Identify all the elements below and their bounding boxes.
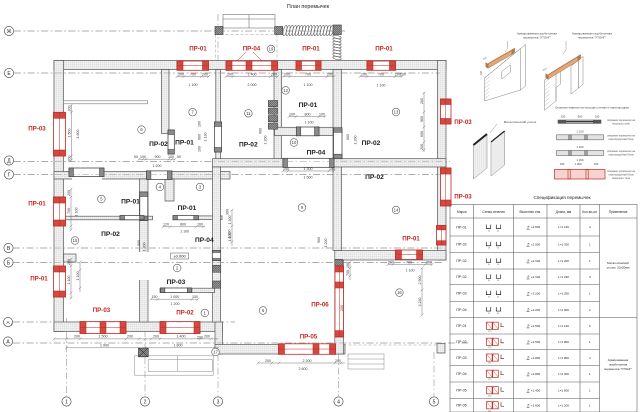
svg-text:16: 16 xyxy=(397,290,402,295)
wall interior x212 xyxy=(213,167,221,322)
porch bottom outline xyxy=(135,356,214,375)
svg-text:+2.500: +2.500 xyxy=(531,324,541,328)
lintel PR-03 right R9 xyxy=(441,168,452,206)
svg-text:2 000: 2 000 xyxy=(248,83,257,87)
svg-text:1 900: 1 900 xyxy=(100,344,109,348)
svg-text:перемычка "УТОНГ": перемычка "УТОНГ" xyxy=(604,367,632,371)
svg-text:ПР-01: ПР-01 xyxy=(28,201,46,208)
lintel B6 PR-02 wall G xyxy=(146,171,172,180)
dim room16 top xyxy=(387,263,434,266)
svg-text:14: 14 xyxy=(394,208,399,213)
svg-text:700: 700 xyxy=(346,270,350,276)
lintel B4 wall y217 left xyxy=(120,216,144,220)
detail metal angle xyxy=(473,131,504,179)
svg-text:200: 200 xyxy=(202,72,208,76)
svg-text:ПР-06: ПР-06 xyxy=(456,404,466,408)
section bar 2 xyxy=(557,135,604,140)
lintel PR-01 rightsec R14 xyxy=(396,250,423,260)
dim top L3 xyxy=(282,75,336,78)
svg-text:Длина, мм: Длина, мм xyxy=(556,210,572,214)
svg-text:900: 900 xyxy=(259,128,263,134)
svg-text:100: 100 xyxy=(289,112,295,116)
svg-text:200: 200 xyxy=(67,190,71,196)
dim wing left xyxy=(349,261,352,280)
svg-text:перемычка "УТОНГ": перемычка "УТОНГ" xyxy=(523,36,551,40)
axis line G xyxy=(14,174,450,176)
svg-text:11: 11 xyxy=(246,111,251,116)
svg-text:Металлический уголок: Металлический уголок xyxy=(504,120,537,124)
wall right-section bottom xyxy=(335,251,446,261)
svg-text:ПР-03: ПР-03 xyxy=(93,307,111,314)
section bar 1 xyxy=(558,120,601,123)
svg-text:900: 900 xyxy=(420,116,424,122)
wall interior x140 xyxy=(140,179,149,322)
svg-text:150: 150 xyxy=(192,295,198,299)
svg-text:ПР-04: ПР-04 xyxy=(195,237,214,244)
svg-text:1 100: 1 100 xyxy=(305,121,314,125)
axis lines overlay xyxy=(14,30,345,32)
svg-text:700: 700 xyxy=(406,260,412,264)
node room 4 xyxy=(156,183,164,191)
wall exterior bottom-left xyxy=(54,322,223,332)
wall interior y286 xyxy=(160,288,215,292)
lintel PR-03 bottom R11 xyxy=(80,322,126,334)
svg-text:+2.100: +2.100 xyxy=(531,275,541,279)
axis line V xyxy=(13,247,442,249)
axis line 5 vertical xyxy=(433,352,435,396)
steps wing bottom-right xyxy=(348,354,384,369)
svg-text:160: 160 xyxy=(197,223,203,227)
svg-text:1: 1 xyxy=(65,399,68,405)
svg-text:+2.500: +2.500 xyxy=(531,340,541,344)
svg-text:ПР-02: ПР-02 xyxy=(239,142,258,149)
svg-text:ПР-02: ПР-02 xyxy=(456,275,466,279)
svg-text:200: 200 xyxy=(284,72,290,76)
node room 7 xyxy=(189,108,197,116)
svg-text:+2.100: +2.100 xyxy=(531,259,541,263)
axis line 1 vertical xyxy=(66,318,68,396)
svg-text:200: 200 xyxy=(178,72,184,76)
svg-text:1 200: 1 200 xyxy=(264,136,268,145)
svg-text:ПР-04: ПР-04 xyxy=(307,150,326,157)
svg-text:800: 800 xyxy=(180,223,186,227)
node room 16 xyxy=(396,289,404,297)
detail2 lintel beam xyxy=(546,55,581,80)
svg-text:1 100: 1 100 xyxy=(76,272,80,281)
dim top L1 xyxy=(176,75,210,78)
svg-text:900: 900 xyxy=(198,134,202,140)
porch post 3 xyxy=(333,25,341,35)
dim D opening xyxy=(282,170,336,173)
svg-text:1 100: 1 100 xyxy=(75,208,79,217)
svg-text:+2.800: +2.800 xyxy=(531,356,541,360)
svg-text:1 300: 1 300 xyxy=(304,167,313,171)
wall interior x274 xyxy=(274,70,282,161)
svg-text:ПР-03: ПР-03 xyxy=(454,194,472,201)
node room 6 xyxy=(138,126,146,134)
leader PR-04 xyxy=(237,52,262,61)
svg-text:1 800: 1 800 xyxy=(76,130,80,139)
svg-text:L=1 200: L=1 200 xyxy=(558,259,569,263)
svg-text:ПР-01: ПР-01 xyxy=(299,102,318,109)
dim room3 door xyxy=(162,225,205,228)
svg-text:1 100: 1 100 xyxy=(577,145,584,149)
svg-text:200: 200 xyxy=(327,72,333,76)
svg-text:L=1 330: L=1 330 xyxy=(558,242,569,246)
axis B xyxy=(4,258,13,267)
svg-text:700: 700 xyxy=(378,72,384,76)
svg-text:ПР-02: ПР-02 xyxy=(176,310,194,317)
svg-text:ПР-01: ПР-01 xyxy=(121,199,140,206)
svg-text:100: 100 xyxy=(140,155,146,159)
dim room14 right xyxy=(421,267,424,317)
wall stub x165 xyxy=(165,179,174,201)
svg-text:ПР-02: ПР-02 xyxy=(149,141,168,148)
dim bottom left1 xyxy=(53,338,147,341)
svg-text:Г: Г xyxy=(8,172,11,178)
svg-text:L=1 600: L=1 600 xyxy=(558,308,569,312)
node room 11 xyxy=(245,110,253,118)
axis 2 xyxy=(140,397,149,406)
dim bottom left2 xyxy=(145,338,218,341)
svg-text:ПР-04: ПР-04 xyxy=(456,372,466,376)
svg-text:L=1 250: L=1 250 xyxy=(558,291,569,295)
dim room13 right xyxy=(423,92,426,152)
svg-text:12: 12 xyxy=(283,88,288,93)
svg-text:50: 50 xyxy=(134,155,138,159)
axis 4 xyxy=(334,397,343,406)
svg-text:уголок, 20х20мм: уголок, 20х20мм xyxy=(607,266,630,270)
svg-text:ПР-04: ПР-04 xyxy=(243,46,261,53)
axis V xyxy=(4,243,13,252)
svg-text:2: 2 xyxy=(144,399,147,405)
svg-text:+2.500: +2.500 xyxy=(531,242,541,246)
svg-text:5: 5 xyxy=(433,399,436,405)
svg-text:200: 200 xyxy=(197,336,203,340)
svg-text:ПР-01: ПР-01 xyxy=(189,46,207,53)
svg-text:ПР-04: ПР-04 xyxy=(456,308,466,312)
svg-text:1 100: 1 100 xyxy=(577,130,584,134)
axis line 3 vertical top xyxy=(217,14,219,62)
svg-text:17: 17 xyxy=(213,350,218,355)
node room 1 xyxy=(201,309,209,317)
axis line A xyxy=(13,342,468,344)
svg-text:+2.200: +2.200 xyxy=(531,308,541,312)
axis G xyxy=(4,170,13,179)
svg-text:Схема сечения: Схема сечения xyxy=(482,210,505,214)
svg-text:несущую стену: несущую стену xyxy=(612,122,630,125)
svg-text:+2.500: +2.500 xyxy=(531,225,541,229)
svg-text:ПР-03: ПР-03 xyxy=(454,119,472,126)
axis line B xyxy=(13,262,442,264)
dim left R6 xyxy=(70,188,73,232)
lintel PR-06 wing R15 xyxy=(335,266,344,337)
svg-text:1 600: 1 600 xyxy=(304,176,313,180)
svg-text:150: 150 xyxy=(595,115,600,119)
svg-text:ПР-03: ПР-03 xyxy=(456,291,466,295)
porch post 2 xyxy=(275,27,283,35)
svg-text:13: 13 xyxy=(394,110,399,115)
svg-text:200: 200 xyxy=(204,335,210,339)
lintel PR-01 top R4 xyxy=(367,61,396,70)
dim wing bottom xyxy=(257,362,345,365)
svg-text:900: 900 xyxy=(317,237,321,243)
svg-text:1 100: 1 100 xyxy=(406,269,415,273)
node room 5 xyxy=(98,195,106,203)
svg-text:1 100: 1 100 xyxy=(304,83,313,87)
lintel B16 thin wall x218 door xyxy=(215,122,222,152)
svg-text:100: 100 xyxy=(198,121,202,127)
svg-text:150: 150 xyxy=(329,167,335,171)
wall wing left xyxy=(335,260,344,354)
node room 6b xyxy=(259,307,267,315)
svg-text:анкерного типа: анкерного типа xyxy=(612,177,630,180)
svg-text:600: 600 xyxy=(420,131,424,137)
svg-text:ПР-05: ПР-05 xyxy=(300,334,318,341)
svg-text:200: 200 xyxy=(153,335,159,339)
svg-text:150: 150 xyxy=(560,162,565,166)
svg-text:ПР-02: ПР-02 xyxy=(456,259,466,263)
svg-text:Ж: Ж xyxy=(7,29,12,35)
svg-text:3 230: 3 230 xyxy=(418,298,422,307)
svg-text:+2.800: +2.800 xyxy=(531,372,541,376)
svg-text:900: 900 xyxy=(578,115,583,119)
partition thin room6 xyxy=(64,101,148,104)
wall exterior right xyxy=(438,61,447,261)
wall step vertical xyxy=(215,322,223,354)
svg-text:1 800: 1 800 xyxy=(174,344,183,348)
lintel B10 wall x212 door xyxy=(212,251,220,261)
porch post 1 xyxy=(215,27,223,35)
lintel B13 wall D opening xyxy=(283,158,334,167)
lintel PR-01 left R7 xyxy=(54,266,66,297)
svg-text:700: 700 xyxy=(67,208,71,214)
axis line Zh xyxy=(14,30,345,32)
svg-text:ПР-01: ПР-01 xyxy=(30,276,48,283)
svg-text:ПР-01: ПР-01 xyxy=(456,225,466,229)
svg-text:150: 150 xyxy=(561,115,566,119)
svg-text:200: 200 xyxy=(361,72,367,76)
svg-text:1 100: 1 100 xyxy=(189,83,198,87)
svg-text:15: 15 xyxy=(73,238,78,243)
svg-text:ПР-05: ПР-05 xyxy=(456,389,466,393)
svg-text:200: 200 xyxy=(67,259,71,265)
axis line 2 vertical xyxy=(144,330,146,396)
svg-text:3: 3 xyxy=(217,399,220,405)
dim left R5 xyxy=(70,104,73,162)
svg-text:700: 700 xyxy=(190,72,196,76)
svg-text:600: 600 xyxy=(346,134,350,140)
svg-text:L=1 130: L=1 130 xyxy=(558,225,569,229)
svg-text:300: 300 xyxy=(226,209,230,215)
svg-text:1 000: 1 000 xyxy=(170,295,179,299)
svg-text:L=1 230: L=1 230 xyxy=(558,275,569,279)
svg-text:1 500: 1 500 xyxy=(99,335,108,339)
svg-text:1 500: 1 500 xyxy=(68,129,72,138)
svg-text:ПР-02: ПР-02 xyxy=(456,243,466,247)
svg-text:План перемычек: План перемычек xyxy=(287,4,330,10)
svg-text:перегородочный блок: перегородочный блок xyxy=(608,138,634,141)
svg-text:900: 900 xyxy=(155,155,161,159)
svg-text:1 400: 1 400 xyxy=(177,335,186,339)
svg-text:50: 50 xyxy=(177,155,181,159)
svg-text:ПР-01: ПР-01 xyxy=(456,324,466,328)
lintel B8 block top of PR-06 xyxy=(335,259,343,265)
wall interior x333 xyxy=(333,70,342,251)
svg-text:ПР-02: ПР-02 xyxy=(362,140,381,147)
lintel PR-02 bottom R12 xyxy=(160,322,200,334)
wall stub left B xyxy=(64,254,77,262)
svg-text:2 900: 2 900 xyxy=(418,276,422,285)
node room 3 xyxy=(196,183,204,191)
node room 9 xyxy=(298,204,306,212)
svg-text:2 200: 2 200 xyxy=(303,359,312,363)
svg-text:ПР-01: ПР-01 xyxy=(375,46,393,53)
svg-text:ПР-06: ПР-06 xyxy=(311,302,329,309)
svg-text:1 300: 1 300 xyxy=(228,230,232,239)
svg-text:1 200: 1 200 xyxy=(153,164,162,168)
wall interior y217 xyxy=(54,216,153,220)
svg-text:ПР-02: ПР-02 xyxy=(101,231,120,238)
wall exterior bottom-middle xyxy=(215,345,345,355)
svg-text:200: 200 xyxy=(420,144,424,150)
svg-text:200: 200 xyxy=(74,335,80,339)
svg-text:200: 200 xyxy=(227,72,233,76)
dim left R7 xyxy=(70,258,73,300)
svg-text:19: 19 xyxy=(269,47,274,52)
detail1 label xyxy=(505,41,508,52)
section bar 4 red xyxy=(555,170,606,180)
porch dashed sides xyxy=(216,35,278,61)
lintel B1 door room6-7 xyxy=(168,130,174,154)
svg-text:L=1 800: L=1 800 xyxy=(558,356,569,360)
svg-text:200: 200 xyxy=(68,156,72,162)
svg-text:Кол-во,шт: Кол-во,шт xyxy=(582,210,597,214)
svg-text:1 200: 1 200 xyxy=(354,136,358,145)
svg-text:ПР-03: ПР-03 xyxy=(456,356,466,360)
svg-text:200: 200 xyxy=(426,260,432,264)
wall interior y217 right xyxy=(198,216,222,220)
lintel right R10 xyxy=(437,226,447,246)
svg-text:200: 200 xyxy=(420,98,424,104)
axis 1 xyxy=(62,397,71,406)
door gap wall x140 xyxy=(139,252,149,280)
level mark 0.000 xyxy=(171,253,189,259)
axis line 3 vertical bottom xyxy=(217,354,219,396)
svg-text:1 300: 1 300 xyxy=(228,216,232,225)
axis line A1 xyxy=(13,321,235,323)
axis line D xyxy=(14,161,450,163)
svg-text:Применение: Применение xyxy=(609,210,628,214)
svg-text:ПР-01: ПР-01 xyxy=(302,46,320,53)
svg-text:L=2 000: L=2 000 xyxy=(558,372,569,376)
node room 17 xyxy=(212,348,220,356)
lintel B15 wall y286 opening xyxy=(160,288,191,293)
svg-text:1 400: 1 400 xyxy=(248,72,257,76)
lintel PR-04 top R2 xyxy=(226,61,278,70)
wall exterior left xyxy=(54,61,64,332)
node room 12 xyxy=(282,87,290,95)
svg-text:1 100: 1 100 xyxy=(180,229,189,233)
wall interior thin x218 xyxy=(216,70,221,160)
svg-text:200: 200 xyxy=(400,73,406,77)
svg-text:200: 200 xyxy=(127,335,133,339)
svg-text:+1.600: +1.600 xyxy=(531,403,541,407)
svg-text:ПР-02: ПР-02 xyxy=(365,174,384,181)
svg-text:120: 120 xyxy=(163,223,169,227)
detail iso 2 piers with lintel xyxy=(545,56,584,110)
svg-text:+2.100: +2.100 xyxy=(531,291,541,295)
svg-text:ПР-03: ПР-03 xyxy=(167,279,186,286)
wall wing corner block xyxy=(437,344,445,354)
door gap wall G xyxy=(72,171,102,180)
svg-text:100: 100 xyxy=(198,146,202,152)
svg-text:Армированная: Армированная xyxy=(608,358,629,362)
svg-text:10: 10 xyxy=(292,140,297,145)
section bar 3 xyxy=(557,151,604,156)
column block porch xyxy=(139,348,149,357)
svg-text:Металлический: Металлический xyxy=(607,261,629,265)
axis Zh xyxy=(4,26,13,35)
node room 2 xyxy=(173,264,181,272)
lintel PR-01 top R3 xyxy=(296,61,321,70)
axis A xyxy=(3,337,12,346)
svg-text:150: 150 xyxy=(594,162,599,166)
node room 15 xyxy=(71,237,79,245)
svg-text:ПР-01: ПР-01 xyxy=(178,205,197,212)
svg-text:1 000: 1 000 xyxy=(575,162,582,166)
dim room9 left xyxy=(231,209,234,246)
lintel PR-03 right R8 xyxy=(441,99,452,124)
svg-text:±0.000: ±0.000 xyxy=(173,254,186,259)
dim room15 v xyxy=(79,261,82,292)
lintel PR-01 left R6 xyxy=(54,197,66,226)
lintel PR-05 bottom R13 xyxy=(279,344,336,355)
axis A1 xyxy=(3,317,12,326)
lintel B2 PR-01 wall y126 xyxy=(296,127,319,136)
lintel B7 wall x333 xyxy=(334,128,343,159)
svg-text:200: 200 xyxy=(388,260,394,264)
svg-text:2 600: 2 600 xyxy=(299,367,308,371)
svg-text:1 200: 1 200 xyxy=(324,239,328,248)
svg-text:Марка: Марка xyxy=(457,210,467,214)
axis 5 xyxy=(429,397,438,406)
axis 3 xyxy=(213,397,222,406)
dim room6 door xyxy=(138,158,177,161)
svg-text:150: 150 xyxy=(152,295,158,299)
wing bottom dashed edge xyxy=(344,344,438,346)
junction blocks wall x212 xyxy=(213,265,221,272)
svg-text:200: 200 xyxy=(265,359,271,363)
svg-text:200: 200 xyxy=(68,106,72,112)
svg-text:300: 300 xyxy=(480,70,483,75)
detail2 label xyxy=(563,41,566,54)
svg-text:1 200: 1 200 xyxy=(143,243,147,252)
stair coil vertical xyxy=(332,35,341,61)
dim PR01 x307 xyxy=(288,115,327,118)
svg-text:Спецификация перемычек: Спецификация перемычек xyxy=(533,195,591,200)
lintel PR-01 top R1 xyxy=(177,61,209,70)
svg-text:ПР-02: ПР-02 xyxy=(456,340,466,344)
detail1 lintel beam xyxy=(486,48,515,68)
svg-text:200: 200 xyxy=(340,305,344,311)
svg-text:ПР-03: ПР-03 xyxy=(28,126,46,133)
porch outline top xyxy=(223,15,275,29)
wall exterior top xyxy=(54,61,446,70)
node room 14 xyxy=(392,206,400,214)
svg-text:L=1 600: L=1 600 xyxy=(558,388,569,392)
svg-text:1 100: 1 100 xyxy=(377,84,386,88)
